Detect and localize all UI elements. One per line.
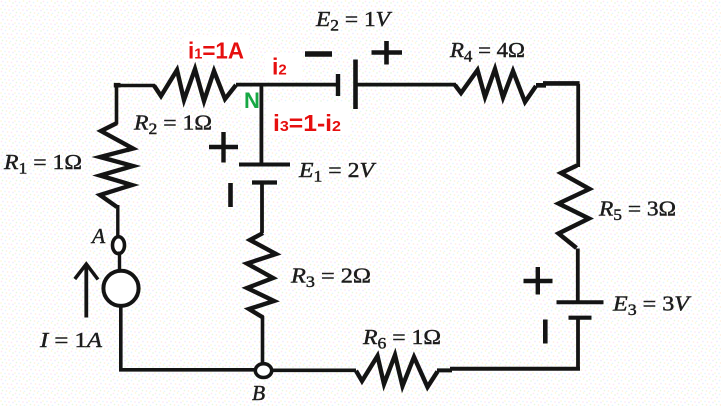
svg-text:A: A bbox=[90, 224, 106, 248]
battery E3 minus mark bbox=[543, 320, 548, 344]
resistor R5 bbox=[559, 166, 590, 249]
wire from R2 to node N and on to E2 negative bar bbox=[236, 83, 338, 87]
battery E3 long bar (positive) bbox=[557, 300, 604, 304]
svg-text:R5 = 3Ω: R5 = 3Ω bbox=[598, 197, 676, 225]
wire R5 up to top-right corner bbox=[576, 84, 580, 167]
svg-text:I = 1A: I = 1A bbox=[39, 328, 103, 352]
battery E3 plus mark bbox=[524, 267, 553, 295]
resistor R1 bbox=[100, 123, 133, 207]
node N label background bbox=[241, 88, 260, 115]
annotation i2 background bbox=[265, 53, 302, 80]
resistor R2 bbox=[154, 69, 236, 101]
battery E1 minus mark bbox=[228, 183, 233, 207]
wire E2 positive bar to R4 bbox=[356, 83, 456, 87]
wire bottom-left horizontal to node B bbox=[119, 368, 256, 372]
annotation i1=1A background bbox=[184, 37, 249, 61]
battery E3 short bar (negative) bbox=[569, 316, 592, 320]
battery E2 plus mark bbox=[372, 41, 403, 65]
wire E3 to R5 bbox=[576, 249, 580, 304]
wire current source to bottom-left corner bbox=[119, 306, 123, 370]
current source I circle bbox=[103, 271, 138, 306]
svg-text:E2 = 1V: E2 = 1V bbox=[315, 7, 393, 35]
wire R3 to node B bbox=[261, 316, 265, 364]
battery E2 short bar (negative) bbox=[336, 74, 340, 96]
wire left vertical from top-left corner down to R1 bbox=[115, 84, 119, 124]
wire node B to R6 bbox=[271, 368, 356, 372]
svg-text:R2 = 1Ω: R2 = 1Ω bbox=[133, 111, 212, 139]
wire bottom-right corner up to E3 bbox=[576, 317, 580, 370]
wire node N vertical down to E1 bbox=[259, 84, 263, 163]
node B terminal circle bbox=[255, 364, 271, 378]
wire R6 to bottom-right corner bbox=[437, 369, 580, 371]
resistor R6 bbox=[356, 355, 438, 387]
wire top-right corner to R4 bbox=[536, 83, 580, 85]
svg-text:E3 = 3V: E3 = 3V bbox=[612, 292, 692, 320]
battery E2 long bar (positive) bbox=[353, 60, 358, 110]
svg-text:N: N bbox=[244, 88, 260, 113]
wire top-left horizontal from left corner to R2 bbox=[115, 84, 155, 88]
battery E2 minus mark bbox=[305, 51, 332, 56]
resistor R4 bbox=[455, 69, 536, 102]
svg-text:B: B bbox=[252, 381, 265, 405]
node A terminal circle bbox=[113, 237, 125, 254]
wire R1 to node A bbox=[116, 205, 119, 238]
svg-text:R6 = 1Ω: R6 = 1Ω bbox=[362, 325, 441, 353]
top-left corner joint bbox=[114, 83, 121, 88]
annotation i3=1-i2 background bbox=[266, 103, 350, 135]
svg-text:R3 = 2Ω: R3 = 2Ω bbox=[290, 264, 371, 292]
svg-text:R1 = 1Ω: R1 = 1Ω bbox=[3, 150, 82, 178]
wire E1 to R3 bbox=[260, 184, 264, 233]
svg-text:R4 = 4Ω: R4 = 4Ω bbox=[449, 38, 525, 66]
svg-text:E1 = 2V: E1 = 2V bbox=[298, 158, 377, 186]
battery E1 plus mark bbox=[209, 132, 238, 163]
battery E1 long bar (positive) bbox=[239, 163, 290, 167]
wire node A to current source bbox=[118, 252, 121, 272]
current arrow for source I bbox=[84, 266, 88, 318]
resistor R3 bbox=[247, 233, 276, 318]
battery E1 short bar (negative) bbox=[252, 180, 277, 184]
